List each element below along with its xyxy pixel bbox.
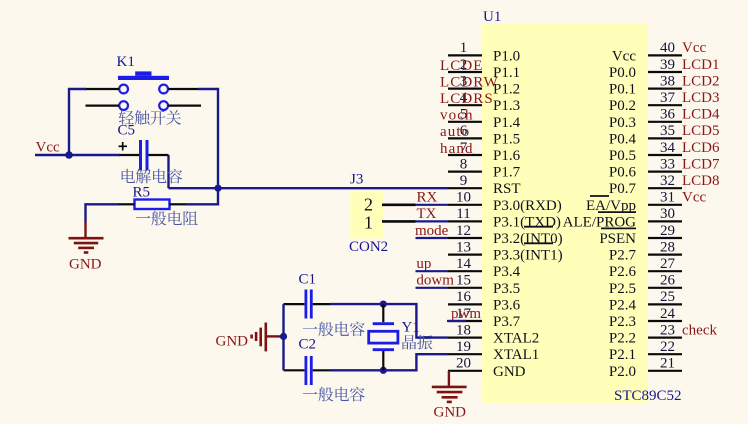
svg-text:P2.0: P2.0	[609, 364, 636, 380]
svg-text:Y1: Y1	[402, 320, 420, 336]
svg-text:up: up	[416, 256, 431, 272]
svg-text:Vcc: Vcc	[36, 140, 60, 156]
U1 pin 5 stub	[448, 121, 482, 123]
U1 pin 1 stub	[448, 54, 482, 56]
U1 pin 32 stub	[648, 187, 682, 189]
svg-text:C1: C1	[299, 272, 317, 288]
label 一般电容 C2 (ceramic capacitor)	[303, 387, 365, 402]
J3 pin 1 lead	[382, 220, 416, 223]
capacitor C5 left lead	[120, 154, 140, 156]
svg-text:RX: RX	[417, 190, 438, 206]
svg-text:1: 1	[364, 213, 373, 233]
switch K1 lead top-right	[168, 88, 198, 90]
svg-text:LCDE: LCDE	[440, 58, 484, 74]
capacitor C5 plates	[141, 140, 148, 170]
wire Vcc rail	[35, 154, 120, 156]
svg-text:P1.3: P1.3	[493, 98, 520, 114]
wire stub net pwm pin 17	[447, 320, 466, 322]
resistor R5 left lead	[119, 203, 135, 205]
wire stub net row pin 14	[416, 270, 449, 272]
svg-text:P0.3: P0.3	[609, 115, 636, 131]
ground GND (U1 pin 20)	[432, 371, 467, 402]
switch K1 contact top-right	[159, 85, 168, 94]
wire R5 right to RST junction	[186, 188, 219, 204]
capacitor C1 left lead	[284, 303, 305, 305]
svg-text:GND: GND	[69, 257, 102, 273]
svg-text:32: 32	[660, 173, 675, 189]
capacitor C5 right lead	[149, 154, 169, 156]
svg-text:P3.4: P3.4	[493, 264, 521, 280]
capacitor C5 plus sign	[119, 142, 128, 151]
svg-text:P2.5: P2.5	[609, 281, 636, 297]
switch K1 button bar	[118, 71, 169, 80]
label 一般电容 C1 (ceramic capacitor)	[303, 322, 365, 337]
node Vcc junction	[65, 151, 73, 159]
U1 pin 34 stub	[648, 154, 682, 156]
svg-text:P0.5: P0.5	[609, 148, 636, 164]
switch K1 lead top-left	[85, 88, 119, 90]
svg-text:P1.5: P1.5	[493, 131, 520, 147]
svg-text:LCD6: LCD6	[682, 140, 720, 156]
svg-text:XTAL2: XTAL2	[493, 331, 539, 347]
U1 pin 23 stub	[648, 337, 682, 339]
wire K1 top-right down to RST junction	[198, 89, 218, 188]
U1 pin 39 stub	[648, 71, 682, 73]
svg-text:29: 29	[660, 223, 675, 239]
connector J3 body (CON2)	[350, 191, 384, 239]
U1 pin 38 stub	[648, 87, 682, 89]
svg-text:13: 13	[456, 239, 471, 255]
capacitor C1 right lead	[313, 303, 330, 305]
svg-text:34: 34	[660, 140, 676, 156]
U1 pin 29 stub	[648, 237, 682, 239]
switch K1 lead bottom-left	[86, 104, 120, 106]
wire RST net to U1 pin 9	[169, 187, 449, 189]
svg-text:P3.2(INT0): P3.2(INT0)	[493, 231, 563, 247]
svg-text:P2.2: P2.2	[609, 331, 636, 347]
svg-text:RST: RST	[493, 181, 521, 197]
J3 pin 2 lead	[382, 204, 416, 207]
node RST junction	[214, 185, 221, 192]
U1 pin 37 stub	[648, 104, 682, 106]
svg-text:39: 39	[660, 57, 675, 73]
wire C2 to crystal bottom / XTAL1	[330, 354, 448, 370]
svg-text:TX: TX	[417, 206, 437, 222]
svg-text:voch: voch	[440, 108, 474, 124]
U1 pin 27 stub	[648, 270, 682, 272]
wire C1 to crystal top / XTAL2	[330, 304, 448, 338]
svg-text:Vcc: Vcc	[682, 190, 706, 206]
svg-text:P1.7: P1.7	[493, 165, 521, 181]
svg-text:27: 27	[660, 256, 676, 272]
overline INT1 (pin 13 P3.3)	[524, 242, 553, 244]
svg-text:23: 23	[660, 322, 675, 338]
U1 pin 28 stub	[648, 254, 682, 256]
overline INT0 (pin 12 P3.2)	[524, 226, 553, 228]
switch K1 contact bottom-right	[159, 101, 168, 110]
svg-text:38: 38	[660, 73, 675, 89]
svg-text:11: 11	[456, 206, 470, 222]
U1 pin 30 stub	[648, 220, 682, 222]
IC U1 STC89C52 body	[482, 23, 648, 404]
U1 pin 4 stub	[448, 104, 482, 106]
svg-text:LCD7: LCD7	[682, 156, 720, 172]
svg-text:pwm: pwm	[451, 306, 481, 322]
svg-text:STC89C52: STC89C52	[614, 388, 682, 404]
switch K1 contact bottom-left	[119, 101, 128, 110]
svg-text:21: 21	[660, 356, 675, 372]
svg-text:P3.7: P3.7	[493, 314, 521, 330]
svg-text:24: 24	[660, 306, 676, 322]
svg-text:auto: auto	[440, 124, 470, 140]
svg-text:P0.6: P0.6	[609, 165, 637, 181]
svg-text:LCD5: LCD5	[682, 123, 720, 139]
svg-text:26: 26	[660, 273, 676, 289]
resistor R5 body	[135, 200, 170, 210]
svg-text:LCD4: LCD4	[682, 107, 720, 123]
svg-text:LCDRS: LCDRS	[440, 91, 494, 107]
wire C1/C2 left rail	[282, 304, 284, 370]
wire stub net row pin 15	[416, 287, 449, 289]
svg-text:10: 10	[456, 190, 471, 206]
svg-text:P3.0(RXD): P3.0(RXD)	[493, 198, 562, 214]
svg-text:LCD3: LCD3	[682, 90, 720, 106]
svg-text:2: 2	[364, 195, 373, 215]
svg-text:C2: C2	[299, 337, 317, 353]
ground GND (R5)	[69, 222, 104, 253]
svg-text:PSEN: PSEN	[599, 231, 636, 247]
overline PROG (pin 30 ALE/PROG)	[598, 211, 636, 213]
U1 pin 2 stub	[448, 71, 482, 73]
svg-text:hand: hand	[440, 141, 474, 157]
wire R5 left to GND	[86, 204, 119, 222]
crystal Y1 bottom plate	[373, 348, 394, 351]
U1 pin 31 stub	[648, 204, 682, 206]
svg-text:P0.7: P0.7	[609, 181, 637, 197]
svg-text:dowm: dowm	[416, 273, 454, 289]
svg-text:25: 25	[660, 289, 675, 305]
svg-text:12: 12	[456, 223, 471, 239]
svg-text:P0.0: P0.0	[609, 65, 636, 81]
svg-text:Vcc: Vcc	[682, 40, 706, 56]
svg-text:LCD8: LCD8	[682, 173, 720, 189]
ground GND (crystal, rotated)	[252, 323, 279, 352]
U1 pin 14 stub	[448, 270, 482, 272]
svg-text:C5: C5	[118, 123, 136, 139]
svg-text:XTAL1: XTAL1	[493, 347, 539, 363]
U1 pin 26 stub	[648, 287, 682, 289]
U1 pin 13 stub	[448, 254, 482, 256]
U1 pin 35 stub	[648, 137, 682, 139]
svg-text:P3.6: P3.6	[493, 297, 521, 313]
svg-text:30: 30	[660, 206, 675, 222]
svg-text:J3: J3	[350, 172, 363, 188]
U1 pin 10 stub	[448, 204, 482, 206]
svg-text:LCD1: LCD1	[682, 57, 720, 73]
svg-text:GND: GND	[493, 364, 526, 380]
svg-text:22: 22	[660, 339, 675, 355]
wire C5 to RST net	[167, 155, 169, 188]
U1 pin 20 stub	[448, 370, 482, 372]
U1 pin 25 stub	[648, 303, 682, 305]
crystal Y1 body	[369, 331, 398, 343]
wire J3 pin2 to U1 P3.0	[416, 204, 449, 206]
capacitor C1 plates	[306, 290, 311, 319]
svg-text:U1: U1	[483, 9, 501, 25]
svg-text:P2.1: P2.1	[609, 347, 636, 363]
svg-text:Vcc: Vcc	[612, 48, 636, 64]
U1 pin 9 stub	[448, 187, 482, 189]
svg-text:35: 35	[660, 123, 675, 139]
svg-text:36: 36	[660, 107, 676, 123]
U1 pin 21 stub	[648, 370, 682, 372]
svg-text:16: 16	[456, 289, 472, 305]
U1 pin 33 stub	[648, 171, 682, 173]
U1 pin 8 stub	[448, 171, 482, 173]
svg-text:P0.4: P0.4	[609, 131, 637, 147]
label 电解电容 (electrolytic capacitor)	[122, 169, 183, 184]
U1 pin 12 stub	[448, 237, 482, 239]
svg-text:mode: mode	[415, 223, 449, 239]
crystal Y1 top plate	[373, 322, 394, 325]
U1 pin 15 stub	[448, 287, 482, 289]
U1 pin 18 stub	[448, 337, 482, 339]
U1 pin 16 stub	[448, 303, 482, 305]
svg-text:P3.5: P3.5	[493, 281, 520, 297]
svg-text:K1: K1	[117, 54, 135, 70]
U1 pin 3 stub	[448, 87, 482, 89]
capacitor C2 left lead	[284, 369, 305, 371]
crystal Y1 bottom lead	[382, 351, 384, 370]
svg-text:P2.3: P2.3	[609, 314, 636, 330]
U1 pin 6 stub	[448, 137, 482, 139]
switch K1 lead bottom-right	[168, 104, 201, 106]
svg-text:20: 20	[456, 356, 471, 372]
svg-text:9: 9	[460, 173, 468, 189]
U1 pin 11 stub	[448, 220, 482, 222]
svg-text:P1.0: P1.0	[493, 48, 520, 64]
svg-text:GND: GND	[216, 334, 249, 350]
wire J3 pin1 to U1 P3.1	[416, 220, 449, 222]
svg-text:40: 40	[660, 40, 675, 56]
svg-text:P2.4: P2.4	[609, 297, 637, 313]
U1 pin 19 stub	[448, 353, 482, 355]
label 一般电阻 (resistor)	[136, 211, 198, 226]
capacitor C2 right lead	[313, 369, 330, 371]
svg-text:37: 37	[660, 90, 676, 106]
svg-text:14: 14	[456, 256, 472, 272]
svg-text:R5: R5	[133, 185, 151, 201]
svg-text:P0.2: P0.2	[609, 98, 636, 114]
svg-text:P2.6: P2.6	[609, 264, 637, 280]
node GND rail junction	[280, 333, 287, 340]
svg-text:1: 1	[460, 40, 468, 56]
svg-text:check: check	[682, 322, 717, 338]
svg-text:31: 31	[660, 190, 675, 206]
svg-text:P3.1(TXD): P3.1(TXD)	[493, 214, 561, 230]
svg-text:P1.6: P1.6	[493, 148, 521, 164]
overline PSEN (pin 29)	[601, 227, 636, 229]
U1 pin 40 stub	[648, 54, 682, 56]
svg-text:LCDRW: LCDRW	[440, 74, 499, 90]
U1 pin 17 stub	[448, 320, 482, 322]
label 晶振 (crystal)	[402, 335, 432, 350]
U1 pin 7 stub	[448, 154, 482, 156]
svg-text:33: 33	[660, 156, 675, 172]
switch K1 contact top-left	[119, 85, 128, 94]
label 轻触开关 (tactile switch)	[119, 110, 181, 125]
crystal Y1 top lead	[382, 304, 384, 322]
svg-text:15: 15	[456, 273, 471, 289]
U1 pin 24 stub	[648, 320, 682, 322]
svg-text:GND: GND	[434, 405, 467, 421]
svg-text:LCD2: LCD2	[682, 73, 720, 89]
capacitor C2 plates	[306, 356, 311, 385]
svg-text:P2.7: P2.7	[609, 248, 637, 264]
wire K1 top-left to Vcc node	[69, 89, 86, 155]
node crystal bottom junction	[380, 367, 387, 374]
wire stub net row pin 12	[416, 237, 449, 239]
node crystal top junction	[380, 301, 387, 308]
wire GND to C1/C2 rail	[279, 335, 284, 337]
overline EA (pin 31 EA/Vpp)	[590, 195, 609, 197]
svg-text:8: 8	[460, 156, 468, 172]
resistor R5 right lead	[170, 203, 186, 205]
U1 pin 36 stub	[648, 121, 682, 123]
svg-text:P0.1: P0.1	[609, 82, 636, 98]
svg-text:P1.4: P1.4	[493, 115, 521, 131]
svg-text:28: 28	[660, 239, 675, 255]
U1 pin 22 stub	[648, 353, 682, 355]
svg-text:18: 18	[456, 322, 471, 338]
svg-text:CON2: CON2	[349, 239, 388, 255]
svg-text:19: 19	[456, 339, 471, 355]
svg-text:P3.3(INT1): P3.3(INT1)	[493, 248, 563, 264]
